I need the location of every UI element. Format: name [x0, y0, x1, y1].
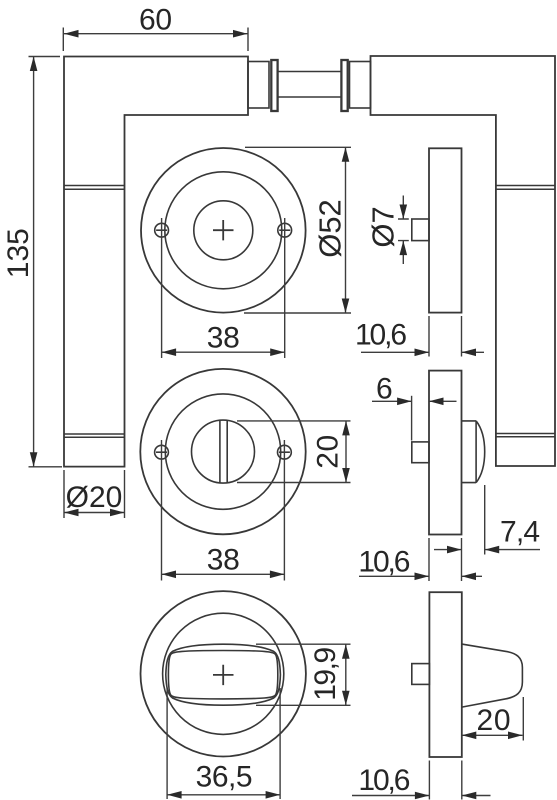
dim 36,5 extension lines — [167, 688, 280, 799]
dim 38 rose2 line — [162, 573, 285, 575]
dim 10,6 mid extension lines — [429, 538, 462, 581]
dim 135 arrows — [30, 57, 38, 467]
right handle outline — [371, 56, 556, 466]
side view 3 plate — [429, 592, 461, 757]
side view 3 turn knob profile — [462, 644, 523, 707]
dim 10,6 top arrow lines — [361, 351, 484, 353]
svg-text:Ø52: Ø52 — [313, 199, 348, 258]
dim 36,5 arrows — [167, 791, 280, 799]
svg-text:38: 38 — [207, 321, 240, 354]
dim 6 arrow line left — [372, 400, 412, 402]
dim O20 arrows — [64, 509, 125, 517]
svg-text:10,6: 10,6 — [358, 764, 410, 797]
left spindle ring — [271, 60, 277, 111]
rose 2 outer circle — [140, 369, 305, 534]
svg-text:Ø20: Ø20 — [66, 481, 123, 514]
dim 36,5 line — [167, 794, 280, 796]
dim 10,6 bottom arrowheads — [415, 792, 476, 800]
dim 7,4 arrow lines — [434, 549, 540, 551]
right handle grip joint double line — [496, 186, 555, 190]
dim O7 ticks — [398, 219, 409, 241]
dim O52 arrows — [342, 147, 350, 313]
dim 6 arrow line right — [429, 400, 457, 402]
side view 2 spindle nub — [412, 442, 429, 463]
side view 1 spindle nub — [412, 219, 429, 241]
rose 2 turn disc — [192, 420, 255, 483]
dim 20 rose2 arrows — [342, 421, 350, 483]
svg-text:10,6: 10,6 — [358, 546, 410, 579]
side view 2 plate — [429, 371, 462, 535]
dim 7,4 extension line — [484, 485, 486, 555]
dim 20 rose2 line — [345, 421, 347, 483]
dim 10,6 bottom extension lines — [429, 761, 461, 800]
svg-text:7,4: 7,4 — [500, 516, 540, 549]
right spindle collar — [350, 62, 371, 109]
spindle shaft — [278, 72, 342, 98]
svg-text:38: 38 — [207, 544, 240, 577]
rose 1 right screw — [278, 223, 292, 237]
rose 2 middle circle — [165, 394, 280, 509]
right spindle ring — [341, 60, 347, 111]
dim 10,6 top arrowheads — [415, 349, 477, 357]
svg-text:6: 6 — [376, 373, 393, 406]
dim 6 arrowheads — [397, 398, 443, 406]
rose 1 center cross — [213, 220, 234, 240]
dim 10,6 bottom arrow lines — [352, 795, 491, 797]
svg-text:36,5: 36,5 — [196, 760, 253, 793]
rose 3 center cross — [213, 665, 234, 685]
dim 135 extension lines — [29, 57, 63, 467]
left handle grip joint double line — [64, 186, 125, 190]
dim 60 line — [64, 33, 248, 35]
rose 3 outer circle — [141, 591, 306, 756]
dim O52 line — [345, 147, 347, 313]
svg-text:19,9: 19,9 — [309, 647, 342, 701]
svg-text:135: 135 — [2, 228, 35, 278]
dim 38 rose2 extension lines — [162, 440, 285, 581]
dim O20 extension lines — [64, 470, 125, 518]
dim 19,9 arrows — [342, 644, 350, 705]
dim O52 extension lines — [244, 147, 351, 313]
rose 3 thumbturn lens outline — [166, 644, 281, 705]
left spindle collar — [248, 62, 269, 109]
rose 3 thumbturn face outline — [168, 651, 277, 699]
dim 38 rose2 arrows — [162, 571, 285, 579]
svg-text:Ø7: Ø7 — [366, 206, 401, 247]
dim 20 side3 line — [462, 734, 523, 736]
svg-text:20: 20 — [477, 704, 511, 737]
svg-text:60: 60 — [139, 4, 172, 37]
dim O20 line — [64, 512, 125, 514]
rose 1 middle circle — [165, 172, 282, 289]
dim O7 arrowheads — [400, 205, 408, 256]
dim O7 arrow lines — [402, 196, 404, 265]
rose 3 middle circle — [163, 613, 284, 734]
dim 20 rose2 extension lines — [237, 421, 351, 483]
side view 3 spindle nub — [412, 664, 430, 685]
dim 60 arrows — [64, 30, 248, 38]
dim 20 side3 arrowheads — [462, 732, 523, 740]
dim 20 side3 extension line — [522, 697, 524, 741]
dim 10,6 mid arrow lines — [359, 575, 482, 577]
dim 6 extension line — [411, 396, 413, 441]
side view 1 plate — [429, 148, 462, 312]
rose 1 outer circle — [141, 148, 306, 313]
dim 38 rose1 extension lines — [162, 218, 285, 358]
rose 2 slot lines — [220, 421, 227, 483]
rose 2 right screw — [278, 445, 292, 459]
right handle grip end-cap double line — [496, 434, 555, 437]
dim 7,4 arrowheads — [447, 546, 499, 554]
dim 10,6 top extension lines — [429, 316, 462, 357]
dim 19,9 extension lines — [256, 644, 351, 705]
dim 60 extension lines — [63, 28, 248, 52]
side view 2 turn knob profile — [462, 421, 485, 483]
svg-text:20: 20 — [312, 435, 345, 469]
dim 10,6 mid arrowheads — [415, 573, 477, 581]
rose 1 inner circle — [194, 201, 253, 260]
left handle outline — [64, 57, 248, 467]
svg-text:10,6: 10,6 — [355, 319, 407, 352]
rose 1 left screw — [155, 223, 169, 237]
rose 2 left screw — [155, 445, 169, 459]
left handle grip end-cap double line — [64, 434, 125, 437]
dim 38 rose1 line — [162, 351, 285, 353]
dim 38 rose1 arrows — [162, 348, 285, 356]
dim 19,9 line — [345, 644, 347, 705]
dim 135 line — [33, 57, 35, 467]
